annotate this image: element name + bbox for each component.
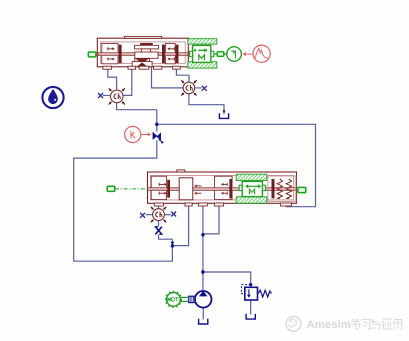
junction dot valve-to-pump (201, 233, 204, 236)
bottom valve land bar left (167, 180, 170, 198)
relief valve pilot dashed line (241, 285, 250, 294)
top valve right land bars (162, 45, 165, 64)
bottom valve right green port (298, 187, 306, 192)
bottom valve left green port (107, 186, 115, 191)
bottom valve left arrows (159, 183, 165, 185)
signal arrow k to orifice (141, 134, 149, 136)
gain k circle (125, 126, 141, 142)
top spool valve body (96, 36, 188, 69)
relief valve (241, 285, 271, 300)
hydraulic fluid properties icon (drop) (42, 87, 63, 108)
bottom valve hatch bottom (236, 197, 267, 203)
hydraulic pump (195, 291, 212, 308)
junction node dot upper (155, 123, 158, 126)
displacement sensor circle (227, 47, 242, 62)
bottom valve spool rod (148, 188, 297, 191)
chamber Ch2 (181, 80, 197, 96)
link port block (217, 52, 224, 57)
wire: relief valve to tank (250, 300, 252, 315)
tank under Ch2 branch (223, 110, 226, 113)
fixed orifice X below Ch3 (155, 227, 163, 235)
watermark logo circle (286, 316, 301, 331)
top valve right arrows (169, 48, 175, 50)
top valve poppet seat (135, 59, 150, 63)
wire: branch to relief valve (203, 272, 251, 287)
tank under relief valve (246, 314, 255, 319)
bottom valve left chamber box (151, 176, 166, 199)
bottom valve springs (277, 179, 282, 199)
plug cross left of Ch1 (103, 94, 111, 96)
bottom valve hatch top (236, 174, 267, 180)
bottom valve right chamber box (215, 176, 233, 199)
wire: Ch1 bottom down right to node (117, 103, 157, 110)
bottom valve mid arrows (196, 185, 202, 187)
wire: orifice X down to node (159, 235, 173, 240)
green dashed mech line (115, 188, 148, 190)
plug cross right of Ch2 (195, 87, 202, 89)
mass M1 body (190, 45, 214, 62)
wire: long line node to bottom valve right port (157, 124, 316, 206)
bottom valve land bar right (229, 179, 232, 198)
wire: vertical into variable orifice VO1 (156, 110, 158, 132)
mass with friction M1 hatch bottom (188, 62, 217, 68)
wire: Ch3 right stub (164, 214, 171, 216)
plug cross left of Ch3 (140, 213, 145, 218)
svg-text:Amesim: Amesim (307, 319, 351, 331)
wire: Ch3 bottom to orifice X (158, 221, 160, 227)
top valve right chamber box (165, 43, 175, 63)
chamber Ch1 (109, 88, 125, 104)
prime mover MOT (165, 291, 181, 307)
wire: top valve port4 to Ch2 top (176, 68, 189, 83)
top valve left arrows (108, 48, 114, 50)
top valve bottom port tabs (103, 66, 111, 69)
junction dot relief pilot tap (249, 283, 252, 286)
plug cross right of Ch3 (171, 212, 176, 217)
mass M2 body in bottom valve (239, 181, 265, 196)
wire: Ch3 left stub (146, 214, 153, 216)
wire: Ch2 bottom to tank (189, 94, 224, 115)
top valve left green port (88, 52, 96, 57)
bottom spool valve body (148, 170, 297, 206)
signal source (waveform) circle (253, 45, 270, 62)
wire: pump to tank (202, 308, 204, 320)
top valve left chamber box (102, 43, 118, 63)
rod inlet arrow (97, 53, 100, 56)
mass with friction M1 hatch top (188, 39, 217, 44)
top valve I-beam spool (140, 43, 153, 45)
wire: bottom valve port3 down to pump (202, 204, 204, 292)
mechanical link to receiver (214, 53, 227, 55)
top valve left land bar (119, 45, 122, 64)
junction dot pump branch (201, 270, 204, 273)
wire: Ch1 right to top valve port2 (123, 68, 132, 96)
chamber Ch3 (151, 207, 167, 223)
bottom valve spring chamber outline (268, 176, 296, 201)
wire: top valve port1 to chamber Ch1 top (108, 68, 117, 91)
variable orifice VO1 (153, 132, 164, 143)
wire: bottom valve port2 to node (172, 204, 188, 246)
relief valve spring (258, 290, 271, 297)
junction arrow and dot at bottom node (170, 242, 174, 245)
bottom valve spring end plate (272, 179, 275, 198)
shaft MOT to pump (181, 296, 190, 298)
bottom valve right arrows (222, 183, 227, 185)
top valve spool rod (96, 53, 188, 56)
signal arrow from source to sensor (245, 53, 253, 55)
wire: VO1 bottom big left loop to bottom node (74, 140, 173, 261)
bottom valve bottom port tabs (154, 203, 163, 206)
wire: top valve port3 down to Ch2 left (152, 68, 184, 88)
wire: bottom valve port1 to Ch3 top (158, 204, 160, 209)
bottom valve middle spool box (179, 178, 193, 200)
wire: bottom valve port4 to port3 line (204, 204, 220, 234)
tank under pump (199, 319, 208, 324)
